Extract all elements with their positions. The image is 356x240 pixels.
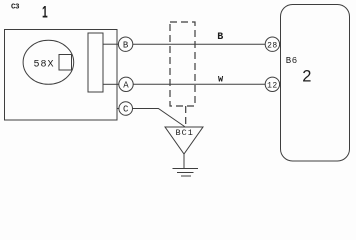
ground triangle BC1 [165, 127, 203, 154]
svg-text:A: A [123, 81, 129, 91]
ground bar 1 [173, 168, 199, 170]
svg-text:58X: 58X [34, 60, 55, 71]
terminal C [119, 102, 133, 116]
wire C to ground triangle [133, 109, 185, 127]
svg-text:BC1: BC1 [176, 128, 194, 138]
sensor rotor circle [23, 40, 74, 84]
component box 1 (sensor) [5, 30, 118, 121]
svg-text:C3: C3 [11, 3, 20, 11]
pin 12 [265, 77, 279, 91]
terminal B [118, 37, 132, 51]
shield dashed box [170, 22, 195, 106]
svg-text:B: B [217, 32, 223, 43]
terminal A [119, 77, 133, 91]
wire stub to terminal C [117, 108, 119, 110]
shield dashed stub to ground [185, 106, 187, 127]
sensor pickup notch [59, 55, 72, 71]
svg-text:1: 1 [42, 3, 48, 21]
svg-text:C: C [123, 105, 129, 115]
svg-text:B: B [123, 40, 129, 50]
svg-text:2: 2 [302, 67, 311, 85]
component box 2 (ECU) [281, 5, 350, 162]
ground stem [183, 154, 185, 169]
pin 28 [265, 37, 279, 51]
svg-text:W: W [218, 74, 224, 84]
svg-text:B6: B6 [286, 56, 298, 66]
svg-text:28: 28 [267, 41, 278, 50]
wire W terminal to pin 12 [133, 83, 265, 85]
ground bar 2 [177, 172, 194, 174]
wire connector to terminal B [103, 43, 118, 45]
ground bar 3 [181, 175, 191, 177]
wire B terminal to pin 28 [133, 43, 266, 45]
connector block [88, 33, 103, 92]
svg-text:12: 12 [267, 82, 278, 91]
wire connector to terminal A [103, 83, 119, 85]
